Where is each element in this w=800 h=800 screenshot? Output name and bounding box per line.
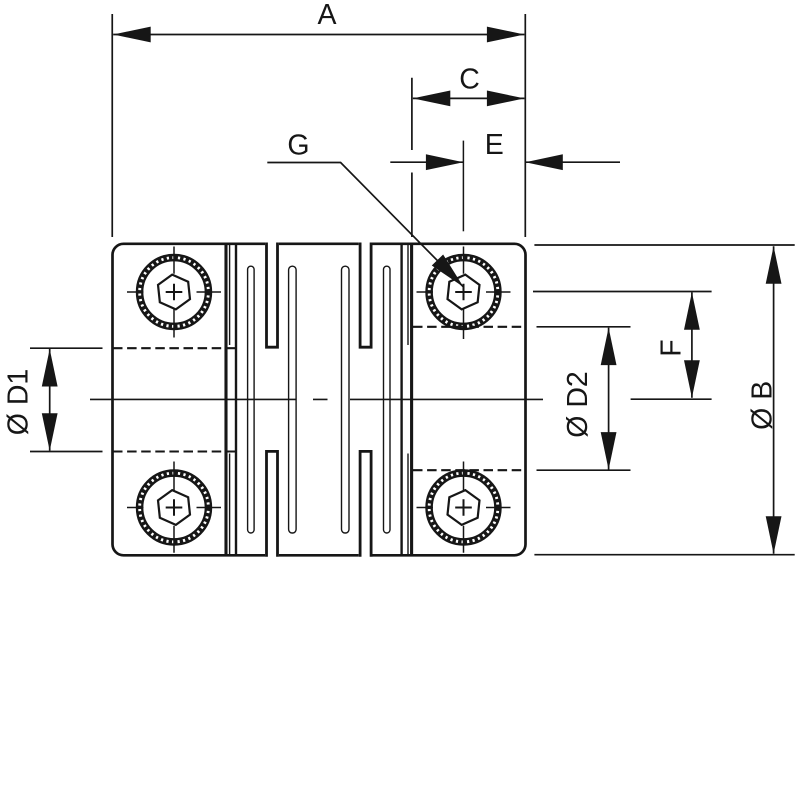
dim F line (691, 292, 693, 398)
dim E line left part (390, 161, 463, 163)
bottom slot right (360, 451, 371, 556)
F reference line bottom (part centerline extension) (631, 398, 712, 400)
bottom slot left (U cut from bottom edge) (267, 451, 278, 556)
arrow D2 bottom (601, 432, 617, 470)
hidden bore D1 bottom (dashed) (113, 450, 238, 452)
dim D2 line (608, 328, 610, 470)
hidden bore D2 bottom (dashed) (413, 469, 526, 471)
svg-text:Ø B: Ø B (746, 381, 778, 430)
screw bottom-left (127, 462, 221, 553)
left hub slit cut line (partial) (229, 245, 231, 555)
dim D2 extension top (537, 326, 631, 328)
dim D2 extension bottom (537, 469, 631, 471)
dim E line right part (525, 161, 620, 163)
svg-text:E: E (485, 129, 504, 161)
hidden bore D1 top (dashed) (113, 347, 238, 349)
right hub slit cut line (partial) (407, 245, 409, 555)
screw centerline extension above body (E reference) (462, 141, 464, 232)
arrow D2 top (601, 328, 617, 366)
svg-text:C: C (459, 64, 480, 96)
thin slit 4 (384, 266, 391, 533)
F reference line top (screw axis extension) (533, 291, 712, 293)
hidden bore D2 top (dashed) (413, 326, 526, 328)
svg-text:Ø D1: Ø D1 (3, 369, 35, 436)
dim B extension bottom (534, 554, 794, 556)
arrow F top (684, 292, 700, 330)
svg-text:Ø D2: Ø D2 (562, 371, 594, 438)
screws (127, 247, 511, 553)
right separation line (400, 245, 402, 555)
svg-text:F: F (656, 339, 688, 356)
dim B extension top (534, 244, 794, 246)
dim C line (413, 97, 525, 99)
dimensions (30, 14, 795, 555)
arrow A right (487, 27, 525, 43)
dim C extension line left (411, 78, 413, 237)
arrow C right (487, 91, 525, 107)
dim D1 extension bottom (30, 451, 103, 453)
left separation line (235, 245, 237, 555)
part horizontal centerline (90, 398, 543, 400)
left hub inner edge (224, 244, 227, 556)
arrow G leader (432, 255, 469, 293)
arrow D1 bottom (42, 413, 58, 451)
arrow D1 top (42, 349, 58, 387)
arrow A left (113, 27, 151, 43)
leader line G (267, 163, 463, 288)
thin slit 2 (289, 266, 297, 533)
top slot right (360, 243, 371, 348)
arrow B top (766, 246, 782, 284)
screw bottom-right (417, 462, 511, 553)
coupling body outline (113, 244, 526, 556)
svg-text:G: G (287, 130, 309, 162)
right hub inner edge (410, 244, 413, 556)
dim D1 line (49, 349, 51, 451)
top slot left (U cut from top edge) (267, 243, 278, 348)
arrow C left (413, 91, 451, 107)
screw top-right (417, 247, 511, 340)
arrow B bottom (766, 516, 782, 554)
arrow E right (525, 154, 563, 170)
thin slit 1 (248, 266, 255, 533)
arrowheads (42, 27, 782, 554)
arrow F bottom (684, 360, 700, 398)
screw top-left (M: outer circle, inner circle, hex socket, centerlines) (127, 247, 221, 338)
dim D1 extension top (30, 347, 103, 349)
dim B line (773, 246, 775, 554)
dim A/C/E extension line right (524, 14, 526, 237)
dim A line (113, 34, 524, 36)
dim A extension line left (111, 14, 113, 237)
arrow E left (426, 154, 464, 170)
svg-text:A: A (317, 0, 336, 31)
thin slit 3 (342, 266, 350, 533)
